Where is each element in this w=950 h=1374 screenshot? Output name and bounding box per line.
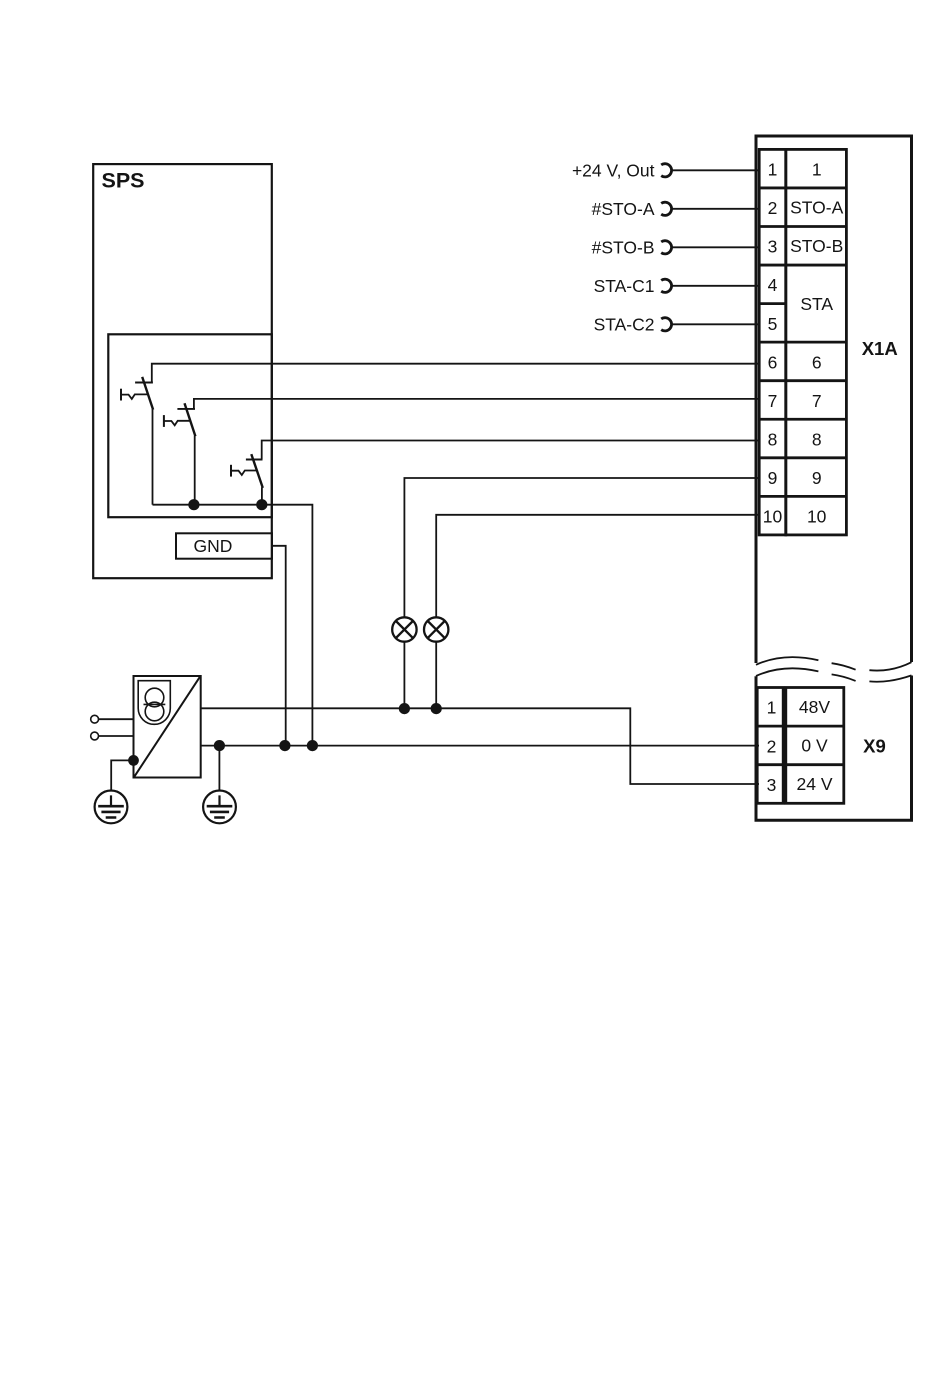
svg-text:0 V: 0 V bbox=[801, 736, 828, 756]
svg-text:48V: 48V bbox=[799, 697, 830, 717]
svg-text:STA: STA bbox=[800, 294, 833, 314]
svg-text:GND: GND bbox=[194, 536, 233, 556]
svg-text:+24 V, Out: +24 V, Out bbox=[572, 160, 655, 180]
svg-text:STO-B: STO-B bbox=[790, 236, 843, 256]
svg-text:STO-A: STO-A bbox=[790, 198, 843, 218]
svg-text:6: 6 bbox=[812, 352, 822, 372]
svg-text:8: 8 bbox=[812, 429, 822, 449]
svg-text:10: 10 bbox=[763, 507, 783, 527]
svg-text:3: 3 bbox=[768, 237, 778, 257]
svg-text:1: 1 bbox=[768, 160, 778, 180]
svg-text:1: 1 bbox=[812, 160, 822, 180]
svg-text:5: 5 bbox=[768, 314, 778, 334]
svg-text:24 V: 24 V bbox=[797, 774, 833, 794]
svg-text:2: 2 bbox=[768, 198, 778, 218]
svg-text:7: 7 bbox=[768, 391, 778, 411]
svg-text:7: 7 bbox=[812, 391, 822, 411]
svg-text:X9: X9 bbox=[863, 736, 886, 757]
svg-text:10: 10 bbox=[807, 507, 827, 527]
svg-text:6: 6 bbox=[768, 352, 778, 372]
svg-text:1: 1 bbox=[767, 698, 777, 718]
svg-text:STA-C2: STA-C2 bbox=[594, 314, 655, 334]
svg-text:4: 4 bbox=[768, 275, 778, 295]
svg-text:#STO-A: #STO-A bbox=[592, 199, 655, 219]
svg-text:9: 9 bbox=[768, 468, 778, 488]
svg-text:2: 2 bbox=[767, 736, 777, 756]
svg-text:#STO-B: #STO-B bbox=[592, 237, 655, 257]
svg-text:8: 8 bbox=[768, 429, 778, 449]
svg-text:STA-C1: STA-C1 bbox=[594, 276, 655, 296]
svg-text:3: 3 bbox=[767, 775, 777, 795]
svg-text:X1A: X1A bbox=[862, 338, 898, 359]
svg-text:SPS: SPS bbox=[102, 169, 145, 193]
svg-text:9: 9 bbox=[812, 468, 822, 488]
